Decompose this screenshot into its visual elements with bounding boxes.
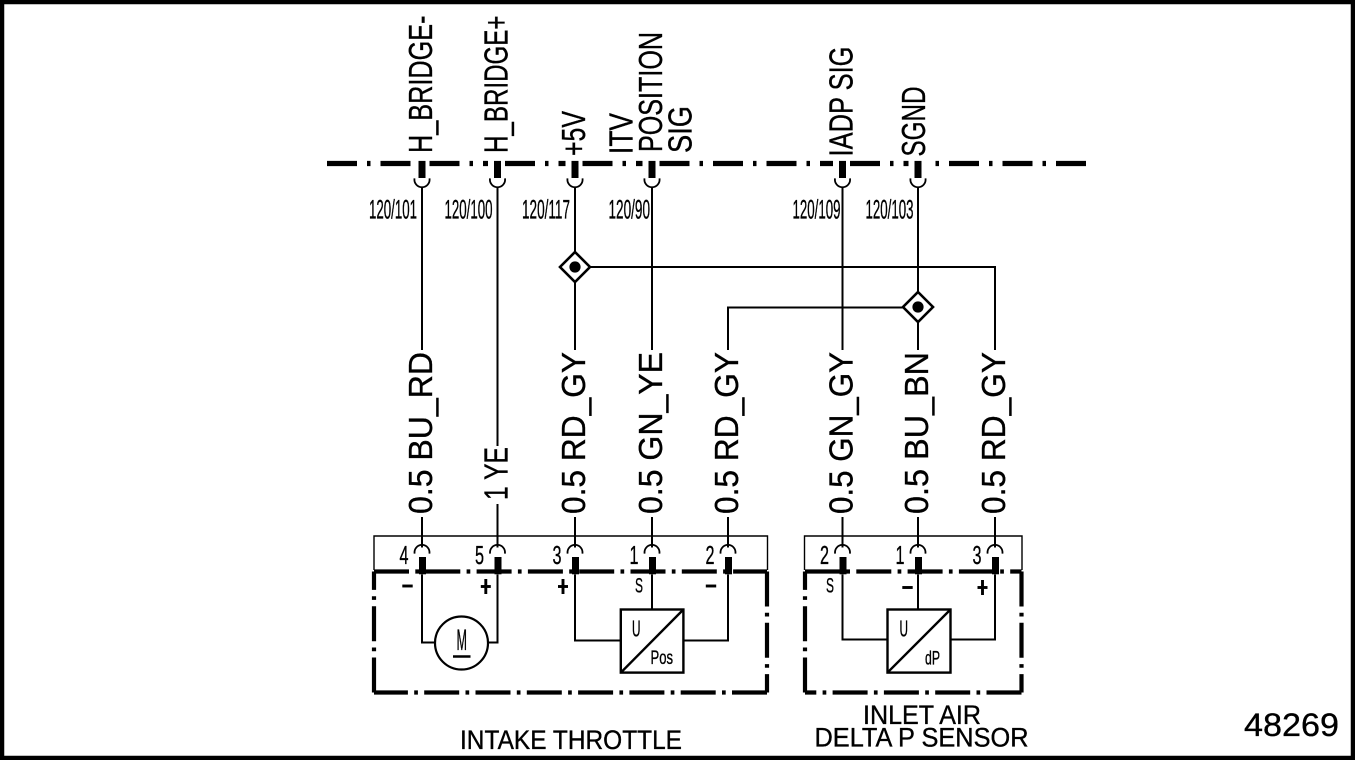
connector pin 5 at x=497.5 xyxy=(490,545,505,554)
svg-text:120/100: 120/100 xyxy=(445,195,493,225)
ECU pin tap IADP SIG xyxy=(839,161,846,178)
wire delta pin2 to sensor left xyxy=(843,575,888,640)
wire H_BRIDGE- (0.5 BU_RD) xyxy=(421,187,423,350)
svg-text:120/90: 120/90 xyxy=(609,195,651,225)
wire H_BRIDGE+ (1 YE) xyxy=(497,187,499,446)
wire SGND (0.5 BU_BN) xyxy=(917,187,919,292)
connector pin 3 at x=575 xyxy=(568,545,583,554)
polarity + (pin 3) xyxy=(558,585,568,588)
intake throttle connector outline xyxy=(374,536,768,570)
ECU pin tap H_BRIDGE+ xyxy=(494,161,501,178)
wire delta pin1 to sensor top xyxy=(917,575,919,610)
polarity - (pin 2) xyxy=(706,585,716,588)
connector pin 3 at x=995 xyxy=(988,545,1003,554)
svg-text:1: 1 xyxy=(896,540,905,570)
inlet air delta P connector outline xyxy=(805,536,1023,570)
wire IADP SIG (0.5 GN_GY) xyxy=(842,187,844,350)
svg-text:SGND: SGND xyxy=(895,87,932,157)
splice junction on +5V wire xyxy=(560,252,590,282)
ECU pin tap H_BRIDGE- xyxy=(419,161,426,178)
svg-text:0.5 RD_GY: 0.5 RD_GY xyxy=(708,352,745,514)
svg-text:U: U xyxy=(632,616,641,642)
connector pin 2 at x=842.5 xyxy=(835,545,850,554)
wire pin2 to position sensor right xyxy=(683,575,728,641)
svg-text:5: 5 xyxy=(475,540,484,570)
svg-text:dP: dP xyxy=(925,649,940,670)
svg-text:120/103: 120/103 xyxy=(866,195,914,225)
wire pin4 to motor xyxy=(422,575,436,643)
inlet air delta P sensor component box xyxy=(805,569,1022,573)
connector pin 4 at x=422 xyxy=(415,545,430,554)
svg-text:2: 2 xyxy=(706,540,715,570)
wire delta pin3 to sensor right xyxy=(951,575,996,640)
svg-text:H_BRIDGE-: H_BRIDGE- xyxy=(402,16,439,154)
svg-text:0.5 BU_BN: 0.5 BU_BN xyxy=(898,352,935,514)
svg-text:120/117: 120/117 xyxy=(522,195,570,225)
throttle position sensor U/Pos xyxy=(621,610,684,673)
connector pin 1 at x=918 xyxy=(911,545,926,554)
wire branch SGND to intake throttle pin 2 (0.5 RD_GY) xyxy=(728,308,903,351)
intake throttle component box xyxy=(374,569,767,573)
svg-text:0.5 BU_RD: 0.5 BU_RD xyxy=(402,352,439,514)
delta P sensor U/dP xyxy=(888,610,951,673)
svg-text:U: U xyxy=(900,616,909,642)
connector pin 1 at x=652 xyxy=(645,545,660,554)
wire pin5 to motor xyxy=(488,575,498,643)
svg-text:1 YE: 1 YE xyxy=(478,447,515,500)
svg-text:+5V: +5V xyxy=(555,111,592,156)
svg-text:S: S xyxy=(826,574,834,598)
svg-text:IADP SIG: IADP SIG xyxy=(823,47,860,157)
svg-text:M: M xyxy=(457,624,468,657)
svg-text:3: 3 xyxy=(973,540,982,570)
svg-text:1: 1 xyxy=(630,540,639,570)
polarity + (pin 5) xyxy=(481,585,491,588)
polarity - (delta pin 1) xyxy=(902,586,912,589)
wire +5V (0.5 RD_GY) xyxy=(574,187,576,252)
ECU pin tap +5V xyxy=(572,161,579,178)
svg-text:SIG: SIG xyxy=(662,106,699,153)
motor M symbol xyxy=(435,617,488,670)
polarity + (delta pin 3) xyxy=(978,586,988,589)
svg-text:DELTA P SENSOR: DELTA P SENSOR xyxy=(815,723,1029,753)
svg-text:S: S xyxy=(635,574,643,598)
svg-text:H_BRIDGE+: H_BRIDGE+ xyxy=(478,16,515,154)
ECU pin tap SGND xyxy=(915,161,922,178)
svg-text:4: 4 xyxy=(400,540,409,570)
svg-text:0.5 GN_YE: 0.5 GN_YE xyxy=(632,352,669,514)
splice junction on SGND wire xyxy=(903,292,933,322)
svg-text:0.5 RD_GY: 0.5 RD_GY xyxy=(975,352,1012,514)
wire ITV POSITION SIG (0.5 GN_YE) xyxy=(651,187,653,350)
ECU pin tap ITV POSITION SIG xyxy=(649,161,656,178)
power/signal bus (dash-dot line) xyxy=(327,161,413,166)
svg-text:INTAKE THROTTLE: INTAKE THROTTLE xyxy=(460,725,682,755)
svg-text:0.5 RD_GY: 0.5 RD_GY xyxy=(555,352,592,514)
svg-text:120/109: 120/109 xyxy=(793,195,841,225)
polarity - (pin 4) xyxy=(402,585,412,588)
svg-text:2: 2 xyxy=(820,540,829,570)
svg-text:3: 3 xyxy=(553,540,562,570)
svg-text:Pos: Pos xyxy=(651,648,674,669)
connector pin 2 at x=728 xyxy=(721,545,736,554)
wire pin3 to position sensor xyxy=(575,575,621,641)
svg-text:120/101: 120/101 xyxy=(369,195,417,225)
svg-text:0.5 GN_GY: 0.5 GN_GY xyxy=(823,352,860,514)
wire branch +5V to Delta P pin 3 (0.5 RD_GY) xyxy=(590,267,995,350)
wire pin1 to position sensor top xyxy=(651,575,653,610)
svg-text:48269: 48269 xyxy=(1244,707,1339,743)
